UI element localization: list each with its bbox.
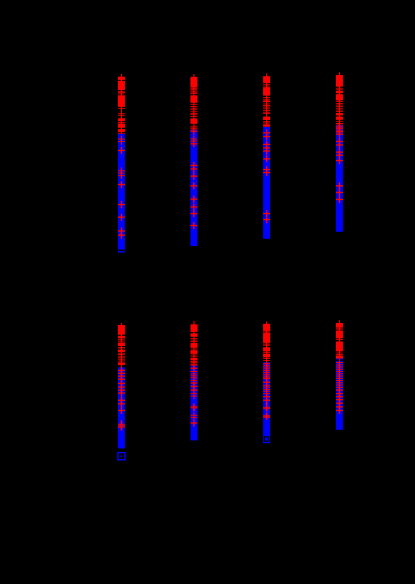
C7 red marker vertical line bbox=[266, 321, 267, 362]
C2 red plus markers (dense blocks and single bars) bbox=[190, 77, 197, 88]
C2 blue marker column bbox=[190, 130, 197, 246]
column C3 (row 1, x=266.6) bbox=[263, 73, 270, 238]
C1 red marker vertical line bbox=[121, 74, 122, 134]
C5 red marker vertical line bbox=[121, 323, 122, 368]
C6 red plus markers over blue column bbox=[191, 365, 198, 372]
C1 black dash marker bbox=[118, 250, 124, 252]
C1 red plus markers (dense blocks and single bars) bbox=[118, 77, 125, 80]
C8 black dash marker bbox=[336, 360, 339, 362]
C7 bright red blended marker clump over blue bbox=[263, 415, 270, 418]
C5 blue open square marker with centre dot bbox=[118, 453, 125, 460]
C8 blue marker column bbox=[336, 359, 343, 430]
C6 red plus markers (dense blocks and single bars) bbox=[191, 324, 198, 332]
C5 red plus markers (dense blocks and single bars) bbox=[118, 325, 125, 335]
C1 red plus markers over blue column bbox=[118, 136, 125, 143]
C5 bright red blended marker clump over blue bbox=[118, 424, 125, 428]
C5 blue marker column bbox=[118, 367, 125, 448]
C7 black open square marker bbox=[264, 437, 268, 441]
column C4 (row 1, x=339.4) bbox=[336, 72, 343, 232]
C4 red plus markers (dense blocks and single bars) bbox=[336, 75, 343, 87]
C2 red plus markers over blue column bbox=[190, 128, 197, 135]
C6 red marker vertical line bbox=[194, 321, 195, 366]
column C8 (row 2, x=339.4) bbox=[336, 320, 343, 430]
C3 blue marker column bbox=[263, 127, 270, 239]
C2 red marker vertical line bbox=[193, 74, 194, 130]
C3 red plus markers (dense blocks and single bars) bbox=[263, 76, 270, 83]
C6 bright red blended marker clump over blue bbox=[191, 406, 198, 408]
C8 red plus markers (dense blocks and single bars) bbox=[336, 323, 343, 328]
C6 blue marker column bbox=[191, 366, 198, 441]
C7 blue marker column bbox=[263, 362, 270, 443]
C4 blue marker column bbox=[336, 125, 343, 232]
C8 red plus markers over blue column bbox=[336, 359, 343, 366]
C4 red plus markers over blue column bbox=[336, 123, 343, 130]
C5 red plus markers over blue column bbox=[118, 367, 125, 374]
C7 red plus markers over blue column bbox=[263, 360, 270, 367]
C7 bright red blended marker clump over blue bbox=[263, 407, 270, 410]
column C5 (row 2, x=121.4) bbox=[118, 323, 125, 460]
C4 red marker vertical line bbox=[339, 72, 340, 125]
C3 red plus markers over blue column bbox=[263, 129, 270, 136]
C3 red marker vertical line bbox=[266, 73, 267, 127]
C1 blue marker column bbox=[118, 134, 125, 253]
column C1 (row 1, x=121.4) bbox=[118, 74, 125, 253]
C7 red plus markers (dense blocks and single bars) bbox=[263, 324, 270, 331]
C8 red marker vertical line bbox=[339, 320, 340, 358]
column C6 (row 2, x=194) bbox=[191, 321, 198, 441]
column C7 (row 2, x=266.6) bbox=[263, 321, 270, 443]
column C2 (row 1, x=193.9) bbox=[190, 74, 197, 246]
